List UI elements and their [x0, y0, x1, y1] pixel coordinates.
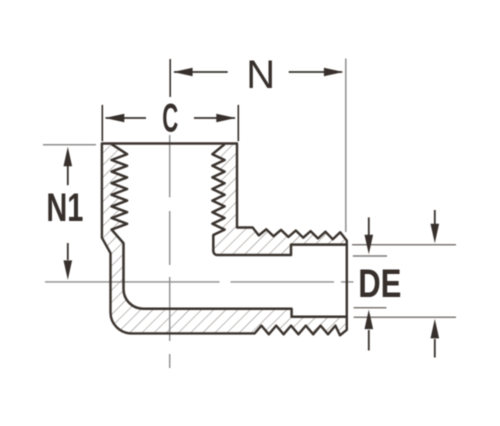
dimension N right arrow — [289, 71, 342, 73]
dimension C extension line right — [237, 105, 239, 141]
svg-text:C: C — [162, 96, 178, 140]
bore contour right/top with female threads — [212, 144, 346, 255]
thread OD lower extension line — [354, 316, 456, 318]
svg-text:N1: N1 — [46, 186, 83, 230]
dimension N1 top extension line — [43, 144, 96, 146]
dimension N1 down arrow — [67, 243, 69, 260]
thread OD bottom arrow — [434, 339, 436, 358]
DE lower tick line — [354, 307, 387, 309]
DE bottom arrow — [368, 330, 370, 351]
dimension C right arrow — [194, 117, 235, 119]
dimension N extension line right — [345, 59, 347, 233]
elbow body outer contour with male NPT threads — [102, 144, 347, 336]
dimension N left arrow — [174, 71, 228, 73]
svg-text:DE: DE — [358, 262, 401, 306]
dimension N extension line left (centerline tick) — [169, 59, 171, 97]
dimension N1 up arrow — [67, 164, 69, 185]
vertical centerline of top port — [169, 135, 171, 368]
dimension C extension line left — [101, 105, 103, 141]
section hatch fill — [102, 144, 347, 336]
svg-text:N: N — [246, 53, 275, 97]
bore contour left/bottom with female threads — [112, 144, 347, 317]
thread OD upper extension line — [352, 244, 456, 246]
thread OD top arrow — [434, 210, 436, 225]
DE top arrow — [368, 217, 370, 236]
horizontal centerline of right port — [45, 281, 354, 283]
DE upper tick line — [353, 255, 387, 257]
dimension C left arrow — [106, 117, 146, 119]
